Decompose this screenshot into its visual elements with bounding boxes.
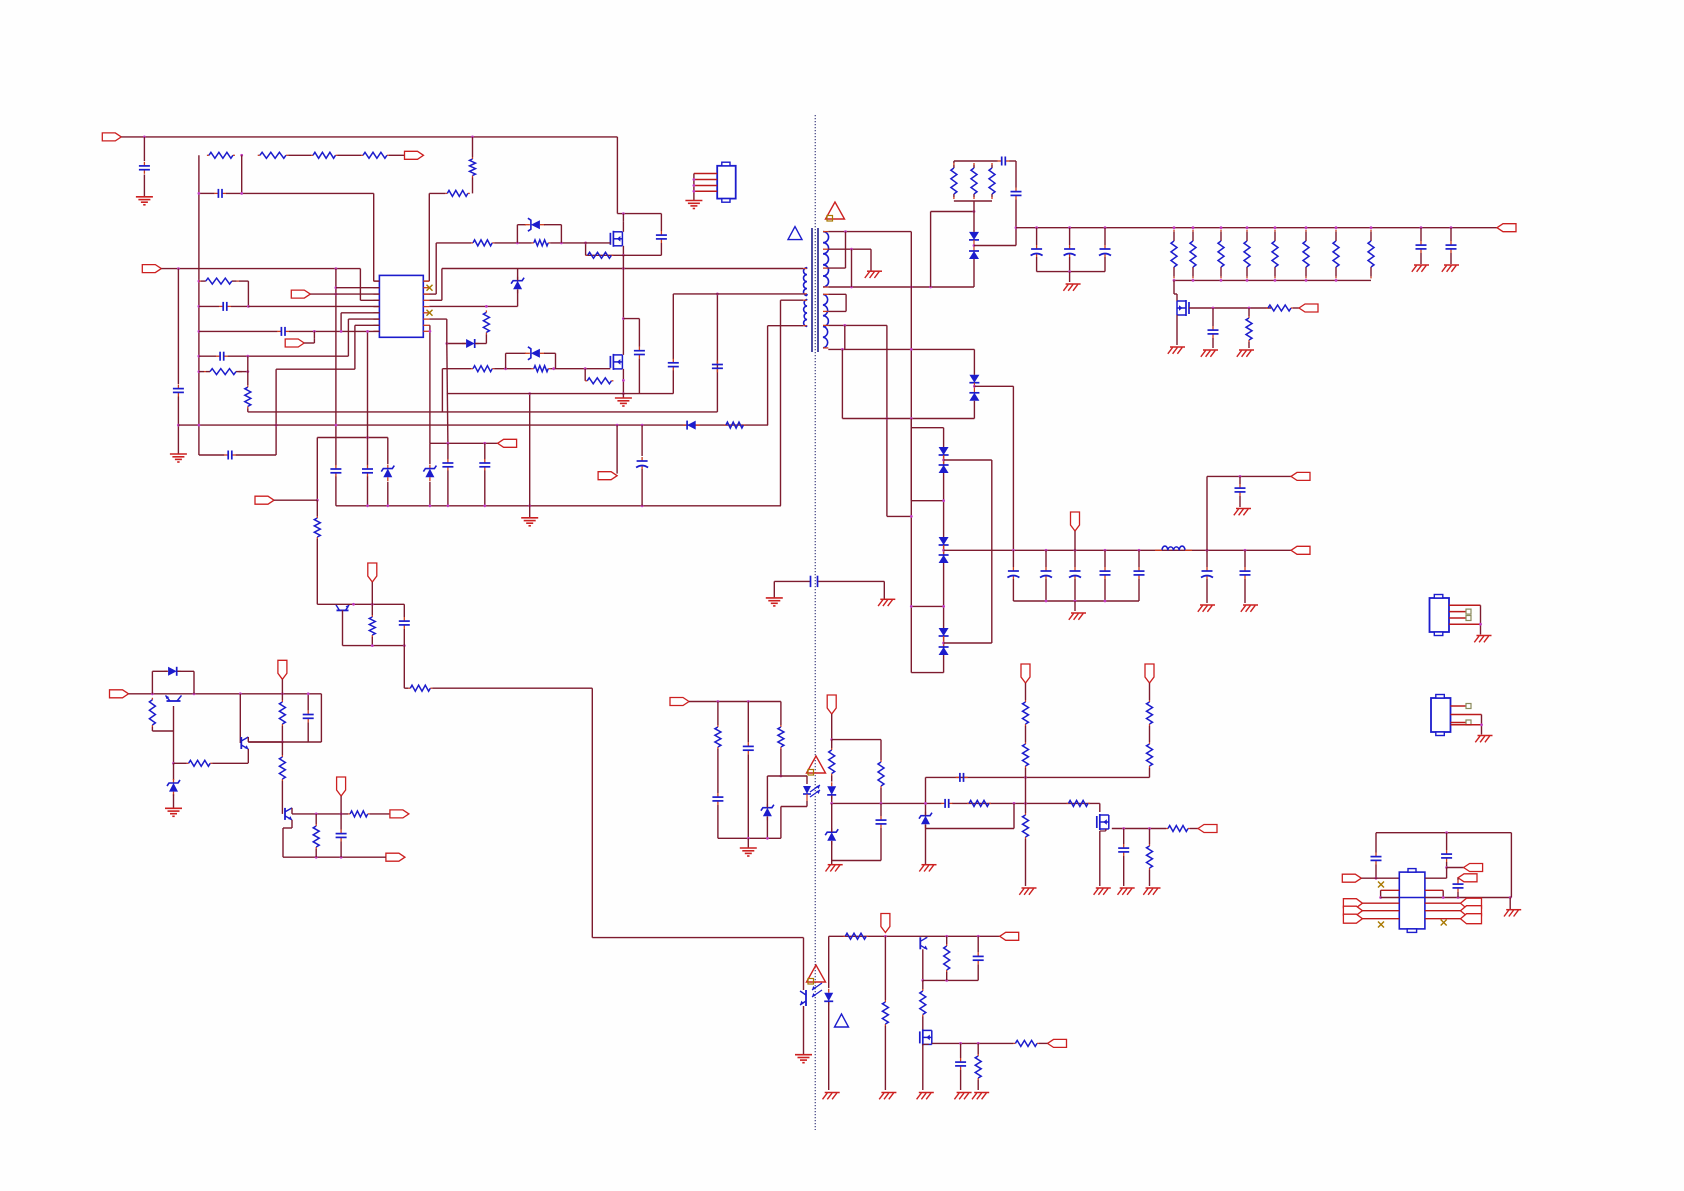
junction CN3 col xyxy=(1480,723,1483,726)
resistor R4 chain xyxy=(311,152,338,158)
junction gate row1 tvs left xyxy=(516,242,519,245)
wire C9 bottom xyxy=(335,477,337,506)
junction gate row1 tvs right xyxy=(560,242,563,245)
square nc CN2 pin3 xyxy=(1466,616,1471,621)
capacitor C31 xyxy=(1118,844,1129,856)
flag reg out A xyxy=(390,810,409,818)
wire C29 wires xyxy=(880,803,882,860)
junction y425 x642 xyxy=(641,424,644,427)
wire C26 bot xyxy=(717,805,719,838)
capacitor C2 series xyxy=(214,189,226,198)
resistor R47 xyxy=(944,944,950,972)
wire R48 wires xyxy=(922,980,924,1030)
wire x404 cap seg xyxy=(403,604,405,617)
connector CN2 body xyxy=(1430,595,1450,636)
wire cap x1105 bottom xyxy=(1104,257,1106,272)
wire opto gnd bus xyxy=(718,837,781,839)
wire fb stem xyxy=(831,714,833,740)
wire T1 sec pin3 lead xyxy=(823,267,828,269)
capacitor C10 xyxy=(362,465,373,477)
wire y300 row xyxy=(781,299,804,301)
wire R20 top stub xyxy=(953,161,955,163)
junction optognd x767 xyxy=(766,837,769,840)
wire U4 flag2 drop xyxy=(1457,878,1459,880)
wire flag drop xyxy=(313,331,315,338)
wire gate row2 drop xyxy=(441,369,443,412)
wire gate row1 a xyxy=(436,242,471,244)
junction y645 x372 xyxy=(371,644,374,647)
wire U1 right pin 8 stub xyxy=(423,324,429,326)
resistor R28 y763 xyxy=(187,760,213,766)
diode D2 xyxy=(462,339,479,348)
junction load bus x1247 xyxy=(1246,279,1249,282)
wire T1 sec pin7 lead xyxy=(823,324,828,326)
junction rail12v x1105 xyxy=(1104,549,1107,552)
square nc CN3 pin1 xyxy=(1466,704,1471,709)
wire U4 in pin xyxy=(1361,877,1399,879)
junction x198 p1 row xyxy=(198,280,201,283)
capacitor C32 xyxy=(973,952,984,964)
flag U4 vin xyxy=(1342,874,1361,882)
wire R2-R3 node down xyxy=(241,155,243,193)
wire p9 row b xyxy=(289,330,379,332)
wire tap link2 xyxy=(845,294,847,311)
diode D10 xyxy=(164,667,181,676)
wire CN2 pin3 xyxy=(1449,617,1466,619)
capacitor C30 series y777 xyxy=(956,773,968,782)
ground U4 xyxy=(1504,910,1521,917)
wire sec pin7 row xyxy=(828,324,887,326)
wire x844 drop xyxy=(844,325,846,349)
wire p1 row xyxy=(239,280,249,282)
zener ZD1 xyxy=(511,277,524,294)
junction Q1 drain xyxy=(622,212,625,215)
triangle note secondary xyxy=(835,1014,849,1027)
junction y857 x341 xyxy=(340,856,343,859)
capacitor C12v x1046 polar xyxy=(1040,567,1052,579)
wire x930 column xyxy=(930,212,932,288)
wire y857 bus xyxy=(283,856,385,858)
wire y688 run xyxy=(432,687,592,689)
junction CN1 gnd 191 xyxy=(693,190,696,193)
junction rail5v R x1221 xyxy=(1220,226,1223,229)
wire gate cap gnd xyxy=(1212,338,1214,348)
wire CN1 pin 1 xyxy=(694,173,717,175)
wire R5 to flag xyxy=(389,154,404,156)
wire U4 rpin4 xyxy=(1425,902,1461,904)
wire reg flag stem xyxy=(281,679,283,694)
resistor R18 gs2 xyxy=(585,378,613,384)
capacitor C21 polar xyxy=(1201,567,1213,579)
junction x367 p9row xyxy=(366,330,369,333)
capacitor C11 xyxy=(442,459,453,471)
wire 12v gnd bus xyxy=(1013,600,1139,602)
junction top rail / C1 xyxy=(143,136,146,139)
wire Q5 gate row xyxy=(1189,307,1271,309)
capacitor C filter x1105 xyxy=(1099,245,1111,257)
wire sec pin2 row xyxy=(828,248,871,250)
x-mark U1 rp6 nc xyxy=(427,310,433,316)
wire x317 to QD bus xyxy=(317,603,335,605)
wire D2 right xyxy=(475,343,487,345)
ground CN2 xyxy=(1474,636,1491,643)
wire x321 right leg xyxy=(320,694,322,742)
wire C24 wires xyxy=(307,694,309,742)
junction rail12v x1075 xyxy=(1074,549,1077,552)
wire R7 to corner xyxy=(429,192,445,194)
wire cap476 gnd xyxy=(1239,496,1241,507)
junction R2-R3 node xyxy=(240,154,243,157)
junction bus506 x447 xyxy=(447,504,450,507)
wire y356 row a xyxy=(199,355,216,357)
resistor R40 xyxy=(1023,742,1029,768)
wire cap x1105 top xyxy=(1104,228,1106,245)
triangle warning opto1 xyxy=(807,756,826,775)
resistor R32 x316 xyxy=(313,824,319,849)
wire R29 wires xyxy=(281,694,283,742)
wire y937 run xyxy=(592,937,803,939)
capacitor C12 xyxy=(479,459,490,471)
ground ZD7 xyxy=(919,865,936,872)
wire cap476 stem xyxy=(1239,476,1241,484)
wire gate row2 c xyxy=(550,368,610,370)
wire x335 column xyxy=(335,269,337,463)
flag U4 left pin4 xyxy=(1343,899,1362,908)
transistor QD bias xyxy=(336,605,349,611)
capacitor C25 x341 xyxy=(336,830,347,842)
junction y425 x617 xyxy=(616,424,619,427)
wire D12 bot xyxy=(828,1002,830,1090)
wire U3 photo col top xyxy=(803,988,805,990)
wire R6 bottom xyxy=(472,178,474,194)
capacitor C35 xyxy=(1441,850,1452,862)
resistor R44 xyxy=(1166,826,1190,832)
wire CN3 pin4 xyxy=(1451,724,1482,726)
wire D9 mid out xyxy=(944,642,992,644)
flag HV sense out xyxy=(405,151,424,159)
capacitor C26 x718 xyxy=(712,793,723,805)
wire U1 left pin 3 stub xyxy=(373,293,379,295)
capacitor C8 y455 xyxy=(224,451,236,460)
wire Q6 out row xyxy=(1112,828,1166,830)
wire C11 bottom xyxy=(447,471,449,506)
wire QD stem xyxy=(342,610,344,645)
connector CN3 body xyxy=(1431,695,1451,736)
junction rail12v x1013 xyxy=(1012,549,1015,552)
junction x198 p9 row xyxy=(198,330,201,333)
wire U4 rpin1 xyxy=(1425,877,1447,879)
ground below C1 xyxy=(136,197,153,205)
junction primary bus half-bridge xyxy=(622,267,625,270)
wire tvs2 right xyxy=(555,353,557,368)
junction y814 x316 xyxy=(315,813,318,816)
capacitor C24 x308 xyxy=(303,710,314,722)
transistor QB xyxy=(241,737,248,749)
junction x623 bus394 xyxy=(622,392,625,395)
wire U4 rpin2 drop xyxy=(1442,890,1444,897)
wire U4 y897 left seg xyxy=(1381,897,1400,899)
wire rp8 corner xyxy=(428,324,431,326)
wire tap link1 xyxy=(845,232,847,269)
resistor R3 chain xyxy=(258,152,289,158)
wire CN2 pin4 xyxy=(1449,623,1481,625)
junction stby x978 xyxy=(977,935,980,938)
junction load bus x1221 xyxy=(1220,279,1223,282)
junction regbus x152 xyxy=(151,692,154,695)
wire tvs loop right xyxy=(560,225,562,243)
junction rail12v L1 out xyxy=(1206,549,1209,552)
capacitor C12v x1139 xyxy=(1134,567,1145,579)
capacitor C27 x748 xyxy=(743,742,754,754)
capacitor C6 p9 series xyxy=(277,327,289,336)
wire R47 wires xyxy=(946,936,948,980)
junction x911 y606 xyxy=(910,605,913,608)
junction D8 mid rail xyxy=(942,549,945,552)
flag 12V output xyxy=(1291,546,1310,554)
junction vcc bus / x335 column xyxy=(335,267,338,270)
junction bus506 x529 xyxy=(528,504,531,507)
junction gate2 node xyxy=(584,367,587,370)
wire cap1245 stem xyxy=(1244,550,1246,567)
tvs D3 gate clamp xyxy=(525,347,545,360)
wire U4 c2 seg2 xyxy=(1446,862,1448,868)
wire x447 down xyxy=(447,344,448,444)
wire left column x178 upper xyxy=(177,269,179,384)
junction q5 gate cap xyxy=(1212,307,1215,310)
junction y803 x1025 xyxy=(1024,802,1027,805)
wire U1 right pin 7 stub xyxy=(423,318,429,320)
junction pin7 x844 xyxy=(843,324,846,327)
wire y356 row b xyxy=(228,355,349,357)
flag U4 left pin5 xyxy=(1343,906,1362,915)
wire ZD1 top xyxy=(517,269,519,281)
square nc CN2 pin2 xyxy=(1466,609,1471,614)
ground U3 xyxy=(795,1055,812,1063)
junction fb node xyxy=(830,738,833,741)
junction gate node Q1 xyxy=(584,242,587,245)
zener ZD6 x831 xyxy=(825,828,838,845)
wire C10 bottom xyxy=(367,477,369,506)
wire R30 wires xyxy=(281,742,283,814)
wire gate row2 b xyxy=(494,368,532,370)
wire Q1 drain to glyph xyxy=(622,222,624,232)
mosfet Q1 xyxy=(610,231,622,247)
wire rp1 stub xyxy=(423,280,429,282)
wire rail 12v xyxy=(944,549,1291,551)
wire U4 c2 seg xyxy=(1446,833,1448,850)
capacitor C14 x717 xyxy=(712,360,723,372)
wire U1 p7 xyxy=(348,318,379,320)
wire ZD1 bottom xyxy=(517,290,519,307)
wire opto led down xyxy=(806,801,808,807)
junction pin4 x930 xyxy=(929,286,932,289)
wire x842 drop xyxy=(841,349,843,418)
mosfet Q2 xyxy=(610,354,622,370)
wire rp3 stub xyxy=(423,293,436,295)
junction load bus x1275 xyxy=(1274,279,1277,282)
junction rp5 r-divider xyxy=(485,305,488,308)
wire vcc corner down xyxy=(359,269,361,301)
resistor R9 gate1 xyxy=(471,240,494,246)
wire cap12 x1013 top xyxy=(1012,550,1014,567)
wire sec pin5 row xyxy=(828,293,846,295)
flag QD supply xyxy=(368,563,377,582)
junction bus506 x484 xyxy=(483,504,486,507)
wire x673 bottom xyxy=(672,370,674,393)
resistor R34 x780 xyxy=(778,725,784,749)
zener ZD2 xyxy=(381,465,394,482)
flag fb 5V sense xyxy=(827,695,836,714)
wire rp4 riser xyxy=(441,269,443,301)
wire T1 sec pin1 lead xyxy=(823,231,828,233)
wire R14 bottom xyxy=(485,334,487,343)
resistor R15 x317 xyxy=(314,516,320,539)
resistor R42 xyxy=(1147,700,1153,726)
ground C20 xyxy=(1234,509,1251,516)
wire R25 top xyxy=(371,604,373,645)
wire bus506 xyxy=(336,505,781,507)
ground C19 xyxy=(1201,350,1218,357)
junction U4 topbus cap2 xyxy=(1445,831,1448,834)
wire x911 top seg2 xyxy=(910,419,912,428)
junction D5 mid xyxy=(973,244,976,247)
junction bus443 x485 xyxy=(483,442,486,445)
wire T1 sec pin8 lead xyxy=(823,347,828,349)
wire filter gnd stem xyxy=(1069,272,1071,282)
junction x943 y606 xyxy=(942,605,945,608)
wire Q5 drain xyxy=(1173,280,1175,294)
junction y425 x335 xyxy=(335,424,338,427)
wire x887 column xyxy=(886,325,888,516)
optocoupler U3 phototransistor xyxy=(800,983,822,1006)
capacitor C18 xyxy=(1011,188,1022,200)
junction y425 x198 xyxy=(198,424,201,427)
junction p5 node xyxy=(247,305,250,308)
junction x335 p3 xyxy=(335,293,338,296)
wire R23 gnd xyxy=(1248,342,1250,348)
wire R41 bot xyxy=(1025,839,1027,886)
wire U1 left pin 1 stub xyxy=(373,280,379,282)
wire QE emitter xyxy=(922,949,924,980)
resistor R51 xyxy=(882,1000,888,1026)
wire y516 link xyxy=(887,515,911,517)
wire x673 top xyxy=(672,294,674,359)
wire rp5 row xyxy=(429,305,517,307)
capacitor C23 xyxy=(399,617,410,629)
ground Q5 xyxy=(1168,347,1185,354)
wire y418 bus xyxy=(842,418,974,420)
wire C3 bottom xyxy=(660,243,662,255)
wire Q6 link xyxy=(1100,830,1106,832)
wire x1016 bottom xyxy=(1015,200,1017,228)
wire QB emitter xyxy=(247,749,249,763)
wire U1 p4 xyxy=(360,299,379,301)
ground secondary pin2 xyxy=(865,271,882,278)
wire D6 mid out xyxy=(974,385,1013,387)
flag aux 12V filtered xyxy=(1291,472,1310,480)
wire primary bus xyxy=(442,268,803,270)
junction pin8 x911 xyxy=(910,348,913,351)
junction q7row x960 xyxy=(959,1042,962,1045)
wire y731 link xyxy=(152,730,173,732)
wire x911 column xyxy=(910,232,912,673)
flag reg mid xyxy=(337,777,346,796)
capacitor C filter x1036 xyxy=(1031,245,1043,257)
wire load bus xyxy=(1174,279,1371,281)
wire U1 p2 xyxy=(336,287,380,289)
wire rp4 stub2 xyxy=(429,299,442,301)
wire tvs loop top b xyxy=(544,224,561,226)
wire y814 to flag xyxy=(370,813,390,815)
wire x592 drop xyxy=(591,688,593,937)
junction regbus x240 xyxy=(239,692,242,695)
wire tvs loop left xyxy=(516,225,518,243)
wire cap C11 top xyxy=(447,443,449,459)
wire gate row2 a xyxy=(442,368,471,370)
wire U1 left pin 6 stub xyxy=(373,312,379,314)
wire U1 left pin 7 stub xyxy=(373,318,379,320)
junction rail5v R x1306 xyxy=(1305,226,1308,229)
wire x367 column top xyxy=(367,331,369,465)
wire Q2 gnd stem xyxy=(622,394,624,398)
wire C16 bottom xyxy=(641,469,643,506)
resistor R24 gate xyxy=(1266,305,1293,311)
junction x911 y516 xyxy=(910,515,913,518)
wire R36 wires xyxy=(831,740,833,782)
ground CY1 left xyxy=(766,598,783,606)
resistor R23 xyxy=(1246,316,1252,342)
junction rail5v R x1371 xyxy=(1370,226,1373,229)
triangle note primary xyxy=(788,227,802,240)
junction CN2 col xyxy=(1479,623,1482,626)
wire R27 bottom xyxy=(151,727,153,731)
wire R42-R43 xyxy=(1149,726,1151,742)
wire 12v gnd stem xyxy=(1074,601,1076,611)
resistor R26 y688 xyxy=(408,685,432,691)
wire R33 wires xyxy=(717,702,719,794)
resistor R6 startup xyxy=(470,157,476,178)
wire U4 lpin3 xyxy=(1381,889,1400,891)
wire CN1 pin 3 xyxy=(694,185,717,187)
wire y425 long xyxy=(178,424,768,426)
wire p8 drop xyxy=(354,325,356,369)
junction x276 y425 xyxy=(275,424,278,427)
wire R6 top xyxy=(472,137,474,157)
wire R28 wires xyxy=(174,762,249,764)
junction y645 x404 xyxy=(403,644,406,647)
junction rail12v x1245 xyxy=(1244,549,1247,552)
resistor R5 chain xyxy=(361,152,389,158)
junction rail5v cap x1105 xyxy=(1104,226,1107,229)
wire U1 right pin 1 stub xyxy=(423,280,429,282)
resistor R46 stby xyxy=(843,933,868,939)
triangle warning T1 xyxy=(826,202,845,221)
junction y356 x247 xyxy=(246,355,249,358)
wire D5 top xyxy=(973,212,975,232)
resistor load x1193 xyxy=(1190,230,1196,279)
resistor R17 gate2 xyxy=(532,366,550,372)
wire gate row1 c xyxy=(550,242,610,244)
wire x992 column xyxy=(991,460,993,643)
junction x925 y803 xyxy=(924,802,927,805)
wire gate to flag xyxy=(1293,307,1299,309)
resistor R30 x282 low xyxy=(279,755,285,781)
wire U4 right col xyxy=(1510,833,1512,898)
junction x943 y501 xyxy=(942,499,945,502)
wire y455 row b xyxy=(236,454,276,456)
wire R50 wires xyxy=(977,1043,979,1090)
wire cap12 x1075 top xyxy=(1074,550,1076,567)
